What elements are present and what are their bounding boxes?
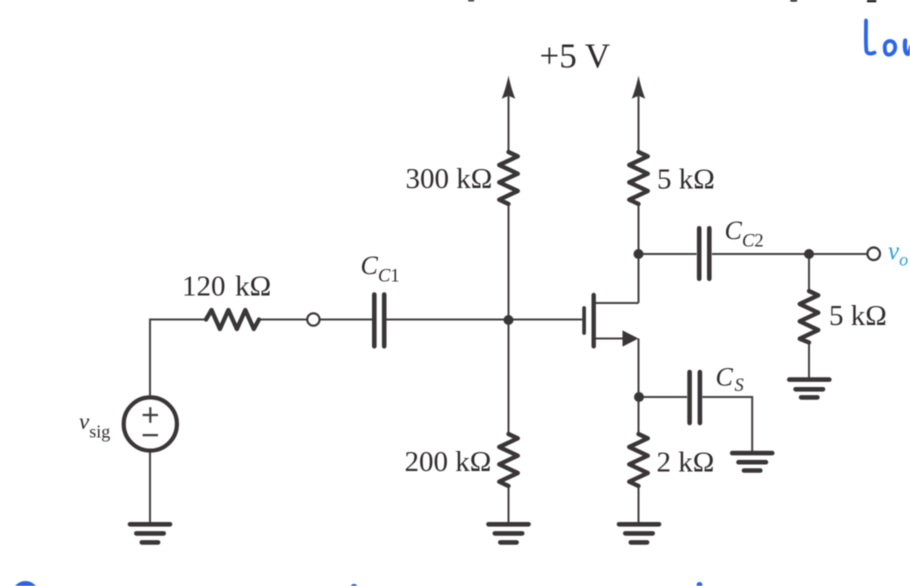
blue annotation dot bottom right (cut off) <box>697 582 703 586</box>
ground below CS <box>732 453 772 470</box>
resistor RS 2k <box>629 434 648 486</box>
resistor RL 5k <box>800 291 819 343</box>
wire source vertical to 2k through source node <box>638 339 640 435</box>
wire source bottom to ground <box>149 453 151 524</box>
wire supply arrow left to 300k <box>508 96 510 152</box>
svg-text:C2: C2 <box>742 232 764 252</box>
voltage source Vsig <box>124 397 177 450</box>
svg-text:200 kΩ: 200 kΩ <box>405 446 492 478</box>
svg-text:2 kΩ: 2 kΩ <box>657 447 715 479</box>
resistor R 200k <box>499 434 518 486</box>
supply arrow left <box>502 76 516 99</box>
handwritten blue annotation "Lou" top right <box>866 21 910 55</box>
svg-text:120 kΩ: 120 kΩ <box>182 271 271 303</box>
wire load node to 5k load <box>808 254 810 291</box>
svg-text:S: S <box>735 376 744 396</box>
mosfet Q1 gate bar <box>582 308 586 333</box>
blue annotation dot bottom middle (cut off) <box>350 584 357 586</box>
svg-text:C: C <box>361 251 379 280</box>
wire 5k load to ground <box>808 343 810 379</box>
drain node dot <box>634 249 644 259</box>
svg-text:300 kΩ: 300 kΩ <box>406 163 493 195</box>
ground below load RL <box>789 380 829 398</box>
wire 5k to drain corner through drain node <box>638 204 640 303</box>
supply arrow right <box>632 76 646 99</box>
wire 2k to ground <box>638 486 640 523</box>
load node dot <box>804 249 814 259</box>
mosfet Q1 source arrowhead <box>623 330 639 346</box>
wire drain horizontal <box>594 302 639 304</box>
svg-text:+5 V: +5 V <box>540 37 611 76</box>
wire drain node to CC2 <box>639 253 697 255</box>
capacitor CC2 <box>699 228 709 278</box>
ground below 2k <box>619 524 659 542</box>
wire supply arrow right to 5k drain resistor <box>638 96 640 152</box>
wire source node to CS <box>639 396 688 398</box>
capacitor CS <box>690 372 700 423</box>
black fragment top edge 3 <box>867 0 876 2</box>
wire CS to its ground <box>702 397 752 452</box>
svg-text:5 kΩ: 5 kΩ <box>657 164 715 196</box>
gate node dot <box>504 315 514 325</box>
black fragment top edge 1 <box>468 0 474 1</box>
resistor RD 5k <box>629 152 648 204</box>
black fragment top edge 2 <box>790 0 797 2</box>
svg-text:C1: C1 <box>378 267 400 287</box>
svg-text:C: C <box>725 216 743 245</box>
svg-text:5 kΩ: 5 kΩ <box>829 300 887 332</box>
wire CC2 to output terminal through load node <box>712 253 868 255</box>
resistor R 300k <box>499 152 518 204</box>
ground below 200k <box>489 524 529 542</box>
capacitor CC1 <box>374 295 384 347</box>
wire CC1 to gate through node <box>386 319 582 321</box>
output terminal open circle <box>867 248 880 261</box>
mosfet Q1 channel bar <box>592 295 596 346</box>
wire 120k to input terminal circle <box>259 319 307 321</box>
wire mosfet source horizontal <box>594 338 625 340</box>
wire terminal circle to CC1 <box>320 319 372 321</box>
resistor R 120k <box>206 310 259 329</box>
blue annotation blob bottom left (cut off) <box>12 581 39 586</box>
source node dot <box>634 392 644 402</box>
wire 300k to 200k through gate node <box>508 204 510 434</box>
wire 200k to ground <box>508 486 510 523</box>
svg-text:C: C <box>716 363 734 392</box>
ground below Vsig <box>130 524 170 542</box>
wire input corner: source top to 120k <box>150 320 206 397</box>
input terminal open circle <box>307 313 319 325</box>
